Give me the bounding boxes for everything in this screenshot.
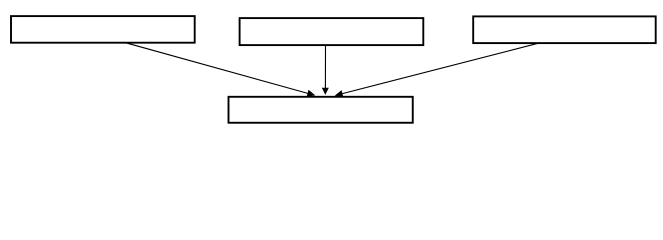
box top-middle bbox=[240, 18, 424, 45]
wire arrow right bbox=[335, 43, 538, 97]
box top-right bbox=[473, 16, 656, 43]
wire arrow middle bbox=[322, 45, 329, 95]
box top-left bbox=[11, 16, 195, 43]
wire arrow left bbox=[126, 43, 316, 97]
box bottom bbox=[229, 97, 413, 123]
